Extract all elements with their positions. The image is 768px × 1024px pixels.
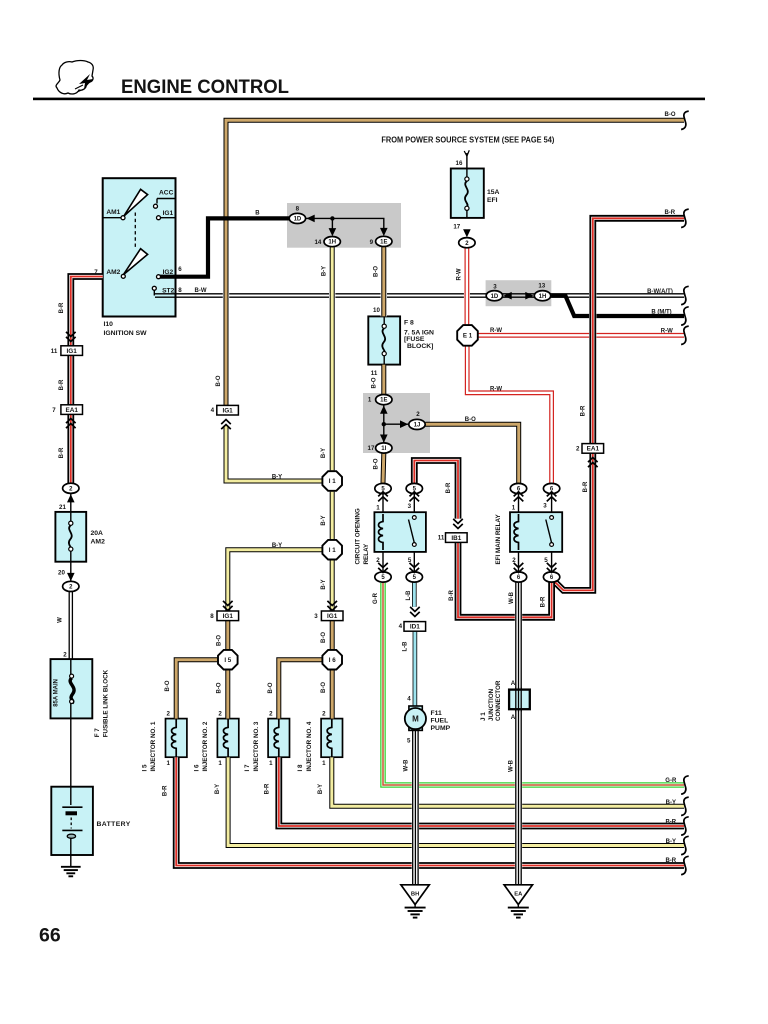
svg-text:I 5: I 5	[141, 764, 148, 771]
svg-text:AM2: AM2	[91, 538, 106, 545]
svg-text:B (M/T): B (M/T)	[651, 309, 671, 315]
svg-text:1E: 1E	[380, 240, 387, 246]
svg-text:EFI: EFI	[487, 197, 498, 204]
svg-text:2: 2	[63, 652, 67, 659]
svg-text:1I: 1I	[381, 446, 386, 452]
svg-text:B-O: B-O	[321, 632, 327, 643]
svg-text:F 8: F 8	[404, 319, 414, 326]
svg-text:1J: 1J	[414, 423, 421, 429]
svg-text:1: 1	[376, 505, 380, 512]
svg-text:CIRCUIT OPENING: CIRCUIT OPENING	[355, 508, 362, 564]
svg-text:B-R: B-R	[664, 210, 675, 216]
svg-text:2: 2	[166, 711, 170, 718]
svg-text:B-R: B-R	[665, 819, 676, 825]
svg-text:B-R: B-R	[162, 785, 168, 796]
svg-text:B-Y: B-Y	[272, 543, 282, 549]
svg-text:R-W: R-W	[661, 329, 673, 335]
svg-text:RELAY: RELAY	[363, 543, 370, 565]
svg-text:I 6: I 6	[193, 764, 200, 771]
svg-text:85A MAIN: 85A MAIN	[54, 679, 60, 707]
svg-text:EA1: EA1	[587, 446, 600, 453]
svg-text:ACC: ACC	[159, 189, 174, 196]
svg-text:A: A	[511, 714, 516, 721]
svg-text:ID1: ID1	[410, 624, 420, 631]
svg-text:B-O: B-O	[216, 375, 222, 386]
svg-text:3: 3	[493, 283, 497, 290]
svg-text:5: 5	[407, 738, 411, 745]
svg-text:I 7: I 7	[244, 764, 251, 771]
svg-text:E 1: E 1	[463, 333, 473, 340]
svg-text:B-R: B-R	[581, 405, 587, 416]
svg-text:5: 5	[544, 557, 548, 564]
svg-text:B-R: B-R	[449, 590, 455, 601]
svg-text:11: 11	[438, 535, 445, 542]
svg-text:INJECTOR NO. 2: INJECTOR NO. 2	[202, 721, 209, 771]
svg-text:FUEL: FUEL	[431, 717, 449, 724]
svg-text:BATTERY: BATTERY	[97, 821, 131, 828]
svg-text:7: 7	[52, 407, 56, 414]
svg-text:EFI MAIN RELAY: EFI MAIN RELAY	[495, 514, 502, 565]
svg-text:1: 1	[218, 760, 222, 767]
svg-text:B-O: B-O	[165, 680, 171, 691]
svg-text:B-O: B-O	[371, 377, 377, 388]
svg-text:7: 7	[94, 269, 98, 276]
svg-text:2: 2	[218, 711, 222, 718]
svg-text:IG2: IG2	[163, 269, 174, 276]
svg-text:FROM POWER SOURCE SYSTEM (SEE: FROM POWER SOURCE SYSTEM (SEE PAGE 54)	[381, 136, 554, 145]
svg-text:B-O: B-O	[374, 266, 380, 277]
svg-text:A: A	[511, 680, 516, 687]
svg-text:20A: 20A	[91, 530, 104, 537]
svg-text:B-O: B-O	[373, 458, 379, 469]
svg-text:4: 4	[399, 623, 403, 630]
svg-text:I 1: I 1	[329, 478, 336, 485]
svg-text:B-O: B-O	[217, 635, 223, 646]
svg-text:B-R: B-R	[59, 302, 65, 313]
svg-text:B-Y: B-Y	[321, 448, 327, 458]
svg-text:11: 11	[51, 348, 58, 355]
svg-text:IGNITION SW: IGNITION SW	[104, 330, 148, 337]
svg-text:3: 3	[408, 503, 412, 510]
svg-text:2: 2	[376, 557, 380, 564]
svg-text:ENGINE CONTROL: ENGINE CONTROL	[121, 76, 289, 98]
svg-text:R-W: R-W	[457, 268, 463, 280]
svg-text:2: 2	[576, 446, 580, 453]
svg-text:1: 1	[512, 505, 516, 512]
svg-text:1E: 1E	[380, 398, 387, 404]
svg-text:2: 2	[416, 411, 420, 418]
svg-text:W-B: W-B	[404, 759, 410, 772]
svg-text:66: 66	[39, 925, 61, 947]
svg-text:AM1: AM1	[106, 209, 120, 216]
svg-text:INJECTOR NO. 1: INJECTOR NO. 1	[150, 721, 157, 771]
svg-text:4: 4	[407, 696, 411, 703]
svg-text:B-R: B-R	[59, 379, 65, 390]
svg-text:5: 5	[408, 557, 412, 564]
svg-text:I 8: I 8	[297, 764, 304, 771]
svg-text:B-W: B-W	[195, 288, 207, 294]
svg-text:4: 4	[211, 407, 215, 414]
svg-text:PUMP: PUMP	[431, 725, 451, 732]
svg-text:IG1: IG1	[222, 408, 233, 415]
svg-text:2: 2	[322, 711, 326, 718]
svg-text:BLOCK]: BLOCK]	[407, 343, 433, 350]
svg-text:1: 1	[368, 397, 372, 404]
svg-text:B-R: B-R	[665, 858, 676, 864]
svg-text:W-B: W-B	[508, 759, 514, 772]
svg-text:G-R: G-R	[665, 778, 677, 784]
svg-text:F11: F11	[431, 710, 443, 717]
svg-text:FUSIBLE LINK BLOCK: FUSIBLE LINK BLOCK	[102, 669, 109, 737]
svg-text:2: 2	[512, 557, 516, 564]
svg-text:AM2: AM2	[106, 269, 120, 276]
svg-text:1: 1	[166, 760, 170, 767]
svg-text:G-R: G-R	[373, 592, 379, 604]
svg-text:B-R: B-R	[583, 481, 589, 492]
svg-text:B-Y: B-Y	[272, 475, 282, 481]
svg-text:R-W: R-W	[490, 328, 502, 334]
svg-text:IG1: IG1	[223, 613, 234, 620]
svg-text:B-Y: B-Y	[318, 784, 324, 794]
svg-text:8: 8	[210, 613, 214, 620]
svg-text:W-B: W-B	[509, 591, 515, 604]
svg-text:3: 3	[314, 613, 318, 620]
svg-text:1H: 1H	[328, 240, 336, 246]
svg-text:B-Y: B-Y	[321, 579, 327, 589]
svg-text:B-Y: B-Y	[322, 266, 328, 276]
svg-text:9: 9	[370, 239, 374, 246]
svg-text:I 5: I 5	[224, 657, 231, 664]
svg-text:B-O: B-O	[268, 682, 274, 693]
svg-text:11: 11	[371, 370, 378, 377]
svg-text:JUNCTION: JUNCTION	[488, 688, 495, 721]
svg-text:CONNECTOR: CONNECTOR	[495, 680, 502, 721]
svg-text:B-O: B-O	[321, 682, 327, 693]
svg-text:6: 6	[178, 266, 182, 273]
svg-text:EA1: EA1	[65, 407, 78, 414]
svg-text:8: 8	[178, 287, 182, 294]
svg-text:W: W	[58, 617, 64, 623]
svg-text:F 7: F 7	[94, 728, 101, 738]
svg-text:B-Y: B-Y	[666, 800, 676, 806]
svg-text:20: 20	[58, 570, 65, 577]
svg-text:B: B	[255, 211, 260, 217]
svg-text:R-W: R-W	[490, 387, 502, 393]
svg-text:10: 10	[373, 307, 380, 314]
svg-text:J 1: J 1	[480, 712, 487, 721]
svg-text:INJECTOR NO. 4: INJECTOR NO. 4	[306, 721, 313, 771]
svg-text:ST2: ST2	[162, 287, 174, 294]
svg-text:1D: 1D	[491, 294, 499, 300]
svg-text:17: 17	[453, 223, 460, 230]
svg-text:EA: EA	[514, 891, 523, 897]
svg-text:13: 13	[538, 283, 545, 290]
svg-text:1: 1	[322, 760, 326, 767]
svg-text:IG1: IG1	[163, 210, 174, 217]
svg-text:IG1: IG1	[327, 613, 338, 620]
svg-text:I 1: I 1	[329, 547, 336, 554]
svg-text:B-O: B-O	[465, 417, 476, 423]
svg-text:3: 3	[543, 503, 547, 510]
svg-text:IG1: IG1	[67, 348, 78, 355]
svg-text:1: 1	[269, 760, 273, 767]
svg-text:B-O: B-O	[217, 682, 223, 693]
svg-text:L-B: L-B	[403, 641, 409, 652]
svg-text:L-B: L-B	[406, 590, 412, 601]
svg-text:14: 14	[314, 239, 321, 246]
svg-text:B-R: B-R	[265, 783, 271, 794]
svg-text:B-O: B-O	[665, 112, 676, 118]
svg-text:1D: 1D	[294, 217, 302, 223]
svg-text:B-Y: B-Y	[666, 839, 676, 845]
svg-text:B-W(A/T): B-W(A/T)	[647, 289, 673, 295]
svg-text:BH: BH	[411, 891, 419, 897]
svg-text:21: 21	[59, 504, 66, 511]
svg-text:B-R: B-R	[446, 482, 452, 493]
svg-text:I10: I10	[104, 321, 114, 328]
svg-text:I 6: I 6	[329, 657, 336, 664]
svg-text:B-R: B-R	[59, 447, 65, 458]
svg-text:15A: 15A	[487, 189, 500, 196]
svg-text:B-Y: B-Y	[321, 515, 327, 525]
svg-text:16: 16	[456, 160, 463, 167]
svg-text:M: M	[412, 715, 419, 724]
svg-text:1H: 1H	[539, 294, 547, 300]
svg-text:8: 8	[296, 206, 300, 213]
svg-text:IB1: IB1	[451, 535, 461, 542]
svg-text:B-Y: B-Y	[215, 784, 221, 794]
svg-text:17: 17	[368, 445, 375, 452]
svg-text:INJECTOR NO. 3: INJECTOR NO. 3	[253, 721, 260, 771]
svg-text:B-R: B-R	[541, 596, 547, 607]
svg-text:2: 2	[269, 711, 273, 718]
